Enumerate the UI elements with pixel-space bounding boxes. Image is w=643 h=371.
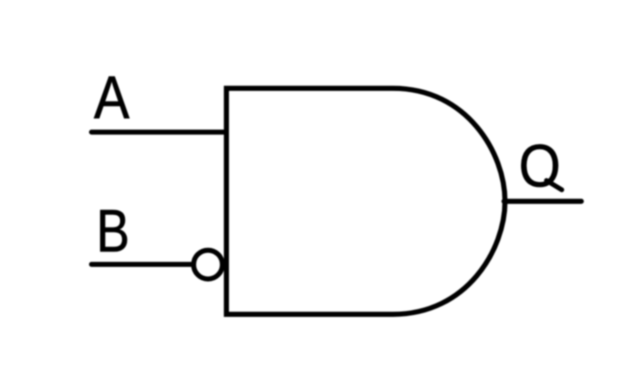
svg-text:O: O [519,132,561,199]
input wire B [92,262,194,267]
output wire Q [504,199,581,204]
svg-text:B: B [96,198,129,265]
inversion bubble on input B [194,250,223,279]
input wire A [92,130,227,135]
label Q tail stroke [547,181,562,190]
AND gate U1 body [226,88,505,314]
svg-text:A: A [94,64,130,131]
